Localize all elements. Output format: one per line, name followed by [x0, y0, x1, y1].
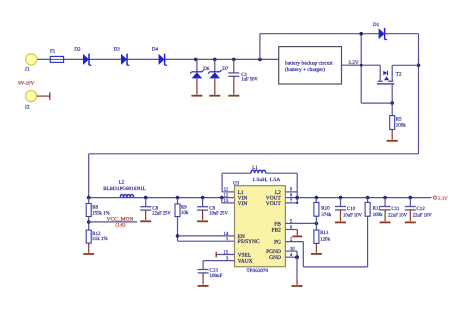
svg-text:31k 1%: 31k 1% [92, 236, 108, 242]
svg-text:11: 11 [224, 187, 229, 193]
svg-text:(battery + charger): (battery + charger) [285, 67, 325, 73]
svg-text:C12: C12 [416, 206, 425, 212]
svg-text:C8: C8 [152, 205, 158, 211]
svg-text:D6: D6 [203, 66, 210, 72]
svg-text:J2: J2 [25, 105, 30, 111]
svg-text:22uF 10V: 22uF 10V [413, 212, 432, 218]
svg-text:374k: 374k [321, 212, 332, 218]
svg-text:12: 12 [224, 193, 229, 199]
svg-text:R10: R10 [321, 205, 330, 211]
svg-text:100k: 100k [373, 212, 384, 218]
svg-text:VIN: VIN [238, 201, 248, 207]
svg-text:1.5uH, 1.5A: 1.5uH, 1.5A [252, 177, 281, 183]
svg-text:3.3V: 3.3V [437, 196, 448, 202]
svg-text:L2: L2 [119, 179, 125, 185]
svg-text:100nF: 100nF [210, 273, 223, 279]
svg-text:100k: 100k [396, 123, 407, 129]
svg-text:(1:6): (1:6) [115, 223, 125, 229]
svg-text:D3: D3 [114, 46, 121, 52]
svg-text:J1: J1 [25, 67, 30, 73]
svg-text:9V-16V: 9V-16V [18, 80, 34, 86]
svg-text:GND: GND [269, 255, 281, 261]
svg-text:BLM31PG601SN1L: BLM31PG601SN1L [103, 186, 146, 192]
svg-text:L1: L1 [252, 165, 258, 171]
svg-text:D1: D1 [373, 22, 380, 28]
svg-text:10k: 10k [181, 210, 189, 216]
svg-text:battery backup circuit: battery backup circuit [285, 61, 333, 67]
svg-text:PS/SYNC: PS/SYNC [238, 239, 260, 245]
svg-text:TPS63070: TPS63070 [247, 268, 269, 274]
svg-text:R12: R12 [92, 231, 101, 237]
svg-text:T2: T2 [396, 72, 402, 78]
svg-text:22uF 10V: 22uF 10V [388, 212, 407, 218]
svg-text:D4: D4 [152, 46, 159, 52]
svg-text:1uF 50V: 1uF 50V [241, 77, 258, 83]
svg-text:C13: C13 [210, 268, 219, 274]
svg-text:R13: R13 [320, 230, 329, 236]
svg-text:R9: R9 [181, 205, 187, 211]
svg-text:D7: D7 [222, 66, 229, 72]
svg-text:R8: R8 [92, 204, 98, 210]
svg-text:22uF 25V: 22uF 25V [152, 211, 171, 217]
svg-text:F1: F1 [50, 49, 56, 55]
svg-text:13: 13 [224, 198, 229, 204]
svg-text:10uF 10V: 10uF 10V [343, 212, 362, 218]
svg-text:VOUT: VOUT [266, 201, 282, 207]
svg-text:R5: R5 [396, 116, 402, 122]
svg-text:C10: C10 [347, 206, 356, 212]
svg-text:14: 14 [224, 231, 229, 237]
svg-text:C11: C11 [391, 206, 400, 212]
svg-text:VAUX: VAUX [238, 259, 253, 265]
svg-text:10uF 25V: 10uF 25V [209, 211, 228, 217]
svg-text:PG: PG [274, 240, 281, 246]
svg-text:D2: D2 [74, 46, 81, 52]
svg-text:PGND: PGND [266, 249, 281, 255]
svg-text:U3: U3 [233, 180, 240, 186]
svg-text:FB2: FB2 [272, 227, 282, 233]
svg-text:120k: 120k [320, 237, 331, 243]
svg-text:C9: C9 [209, 205, 215, 211]
svg-text:155k 1%: 155k 1% [92, 211, 110, 217]
